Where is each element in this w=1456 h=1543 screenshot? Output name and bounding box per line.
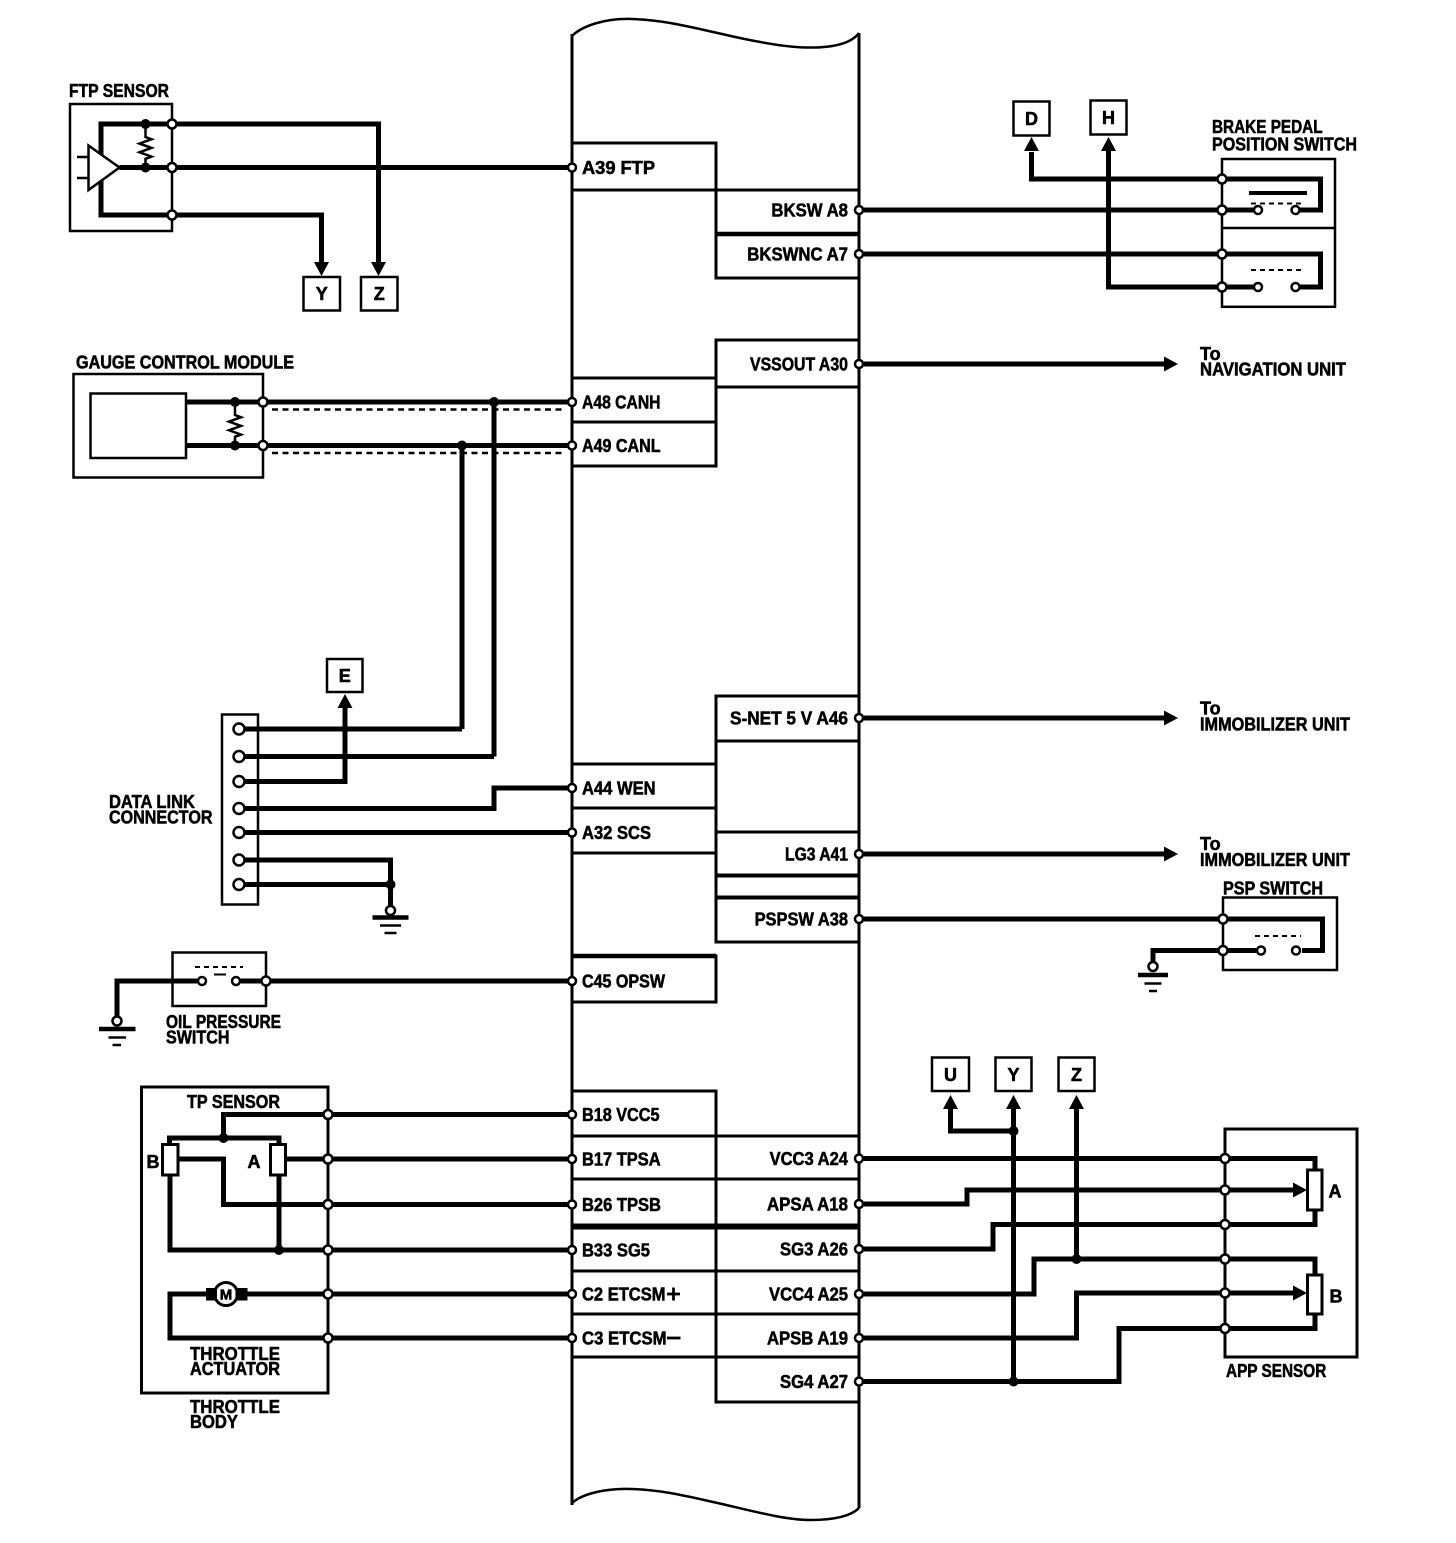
- svg-text:BKSW A8: BKSW A8: [771, 201, 848, 221]
- svg-text:IMMOBILIZER UNIT: IMMOBILIZER UNIT: [1200, 850, 1350, 870]
- svg-text:Z: Z: [374, 284, 385, 304]
- svg-text:C3 ETCSM: C3 ETCSM: [582, 1329, 667, 1349]
- svg-text:E: E: [339, 666, 351, 686]
- svg-text:A44 WEN: A44 WEN: [582, 779, 656, 799]
- svg-text:SWITCH: SWITCH: [166, 1028, 230, 1048]
- svg-text:H: H: [1102, 108, 1115, 128]
- svg-text:B26 TPSB: B26 TPSB: [582, 1195, 661, 1215]
- svg-text:LG3 A41: LG3 A41: [785, 845, 848, 865]
- svg-text:CONNECTOR: CONNECTOR: [109, 808, 213, 828]
- svg-text:B: B: [1330, 1287, 1343, 1307]
- svg-text:TP SENSOR: TP SENSOR: [187, 1092, 280, 1112]
- svg-text:B33 SG5: B33 SG5: [582, 1241, 650, 1261]
- svg-text:SG4 A27: SG4 A27: [780, 1372, 848, 1392]
- svg-text:M: M: [220, 1287, 233, 1304]
- svg-text:FTP SENSOR: FTP SENSOR: [69, 81, 169, 101]
- svg-text:POSITION SWITCH: POSITION SWITCH: [1212, 135, 1357, 155]
- svg-text:APP SENSOR: APP SENSOR: [1226, 1361, 1326, 1381]
- svg-text:APSB A19: APSB A19: [767, 1329, 848, 1349]
- svg-text:B18 VCC5: B18 VCC5: [582, 1105, 660, 1125]
- svg-text:PSPSW A38: PSPSW A38: [755, 910, 848, 930]
- svg-text:A48 CANH: A48 CANH: [582, 393, 661, 413]
- svg-text:GAUGE CONTROL MODULE: GAUGE CONTROL MODULE: [76, 353, 294, 373]
- svg-text:D: D: [1025, 109, 1038, 129]
- svg-text:VSSOUT A30: VSSOUT A30: [750, 355, 848, 375]
- svg-text:Z: Z: [1071, 1065, 1082, 1085]
- svg-text:A32 SCS: A32 SCS: [582, 823, 651, 843]
- svg-text:BKSWNC A7: BKSWNC A7: [747, 245, 848, 265]
- svg-text:IMMOBILIZER UNIT: IMMOBILIZER UNIT: [1200, 715, 1350, 735]
- svg-text:A: A: [1329, 1182, 1342, 1202]
- svg-text:U: U: [944, 1065, 957, 1085]
- svg-text:C2 ETCSM: C2 ETCSM: [582, 1285, 666, 1305]
- svg-text:NAVIGATION UNIT: NAVIGATION UNIT: [1200, 360, 1346, 380]
- svg-text:B: B: [147, 1152, 160, 1172]
- svg-text:B17 TPSA: B17 TPSA: [582, 1150, 661, 1170]
- svg-text:Y: Y: [316, 284, 328, 304]
- svg-text:Y: Y: [1007, 1065, 1019, 1085]
- svg-text:A: A: [248, 1152, 261, 1172]
- svg-text:BODY: BODY: [190, 1412, 238, 1432]
- svg-text:VCC3 A24: VCC3 A24: [770, 1149, 848, 1169]
- svg-text:SG3 A26: SG3 A26: [780, 1240, 848, 1260]
- svg-text:C45 OPSW: C45 OPSW: [582, 972, 665, 992]
- svg-text:ACTUATOR: ACTUATOR: [190, 1359, 280, 1379]
- svg-text:S-NET 5 V A46: S-NET 5 V A46: [730, 709, 848, 729]
- svg-text:APSA A18: APSA A18: [767, 1195, 848, 1215]
- svg-text:PSP SWITCH: PSP SWITCH: [1223, 879, 1323, 899]
- svg-text:A49 CANL: A49 CANL: [582, 436, 661, 456]
- svg-text:A39 FTP: A39 FTP: [582, 158, 655, 178]
- svg-text:VCC4 A25: VCC4 A25: [769, 1285, 848, 1305]
